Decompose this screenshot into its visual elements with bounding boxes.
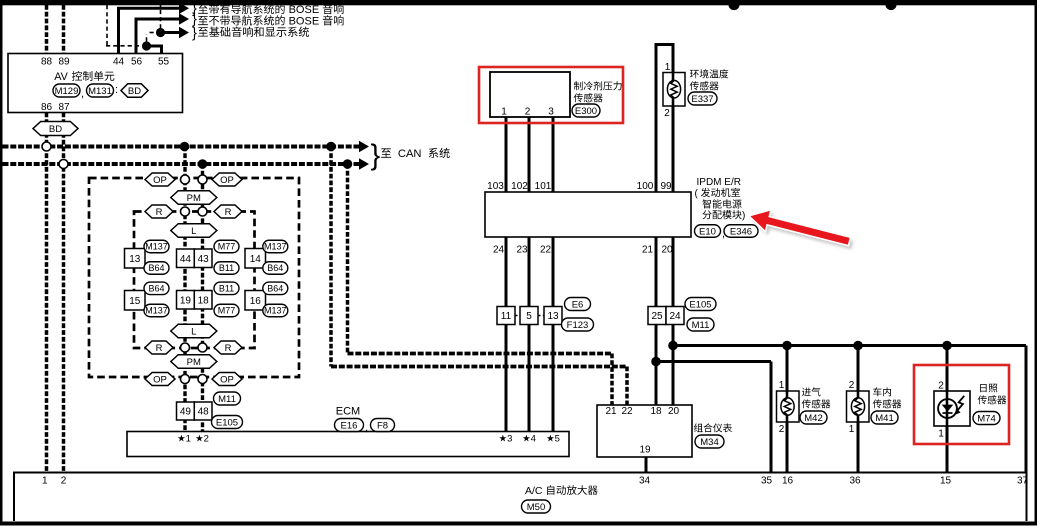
svg-text:88: 88	[41, 57, 53, 68]
svg-text:24: 24	[669, 311, 681, 322]
svg-text:21: 21	[642, 245, 654, 256]
svg-text:R: R	[156, 343, 163, 354]
svg-text:11: 11	[501, 311, 512, 322]
svg-text:M34: M34	[700, 437, 718, 448]
svg-text:89: 89	[58, 57, 70, 68]
svg-text:OP: OP	[153, 374, 167, 385]
svg-text:1: 1	[665, 62, 671, 73]
svg-text:M129: M129	[55, 86, 79, 97]
svg-text:M137: M137	[264, 242, 287, 252]
svg-text:E6: E6	[572, 299, 584, 310]
svg-text:E10: E10	[699, 226, 716, 237]
svg-text::: :	[115, 84, 118, 96]
svg-text:M11: M11	[692, 320, 710, 331]
svg-text:}: }	[371, 140, 381, 172]
svg-text:55: 55	[158, 57, 170, 68]
svg-text:2: 2	[61, 476, 67, 487]
svg-text:E105: E105	[216, 417, 238, 428]
svg-text:86: 86	[41, 102, 53, 113]
svg-text:E105: E105	[689, 299, 711, 310]
svg-text:}: }	[192, 26, 197, 42]
svg-text:22: 22	[621, 406, 633, 417]
svg-text:43: 43	[198, 254, 210, 265]
svg-text:,: ,	[722, 228, 725, 240]
svg-text:OP: OP	[220, 374, 234, 385]
svg-text:M137: M137	[264, 306, 287, 316]
svg-text:★5: ★5	[546, 434, 560, 445]
svg-text:M77: M77	[218, 242, 236, 252]
svg-text:99: 99	[660, 181, 672, 192]
svg-text:2: 2	[849, 380, 855, 391]
svg-text:F8: F8	[377, 420, 388, 431]
svg-text:M77: M77	[218, 306, 236, 316]
svg-text:56: 56	[131, 57, 143, 68]
svg-text:18: 18	[650, 406, 662, 417]
svg-text:★4: ★4	[522, 434, 536, 445]
svg-text:1: 1	[779, 380, 785, 391]
svg-text:48: 48	[198, 407, 210, 418]
svg-text:,: ,	[81, 88, 84, 100]
svg-text:F123: F123	[567, 320, 589, 331]
svg-text:★1: ★1	[177, 434, 191, 445]
svg-text:B11: B11	[219, 284, 234, 294]
svg-text:19: 19	[639, 445, 651, 456]
svg-text:20: 20	[661, 245, 673, 256]
svg-text:13: 13	[129, 254, 141, 265]
svg-text:15: 15	[940, 476, 952, 487]
svg-text:44: 44	[180, 254, 192, 265]
svg-text:BD: BD	[49, 124, 62, 135]
svg-text:37: 37	[1017, 476, 1029, 487]
svg-text:L: L	[191, 226, 196, 237]
svg-text:IPDM E/R: IPDM E/R	[697, 177, 741, 188]
svg-text:20: 20	[668, 406, 680, 417]
svg-text:36: 36	[849, 476, 861, 487]
svg-text:2: 2	[664, 108, 670, 119]
svg-text:PM: PM	[187, 193, 201, 204]
svg-text:M131: M131	[88, 86, 112, 97]
svg-text:3: 3	[548, 107, 554, 118]
svg-text:BOSE: BOSE	[289, 16, 320, 28]
svg-text:19: 19	[180, 295, 192, 306]
svg-text:ECM: ECM	[336, 406, 360, 418]
svg-text:M11: M11	[218, 394, 236, 405]
svg-text:35: 35	[761, 476, 773, 487]
svg-text:1: 1	[849, 424, 855, 435]
svg-text:23: 23	[516, 245, 528, 256]
svg-text:BD: BD	[128, 86, 141, 97]
svg-text:,: ,	[365, 422, 368, 434]
svg-text:25: 25	[651, 311, 663, 322]
svg-text:PM: PM	[187, 357, 201, 368]
svg-text:L: L	[191, 326, 196, 337]
svg-text:100: 100	[637, 181, 654, 192]
svg-text:E346: E346	[730, 226, 752, 237]
svg-text:14: 14	[250, 254, 262, 265]
svg-text:102: 102	[511, 181, 528, 192]
svg-text:BOSE: BOSE	[289, 4, 320, 16]
svg-text:CAN: CAN	[398, 148, 422, 160]
svg-text:M41: M41	[875, 413, 893, 424]
svg-text:13: 13	[547, 311, 559, 322]
svg-text:B64: B64	[148, 263, 164, 273]
svg-text:34: 34	[639, 476, 651, 487]
svg-text:5: 5	[526, 311, 532, 322]
svg-text:21: 21	[605, 406, 617, 417]
svg-text:1: 1	[938, 429, 944, 440]
svg-text:E300: E300	[575, 106, 597, 117]
svg-text:E16: E16	[341, 420, 358, 431]
svg-text:16: 16	[250, 296, 262, 307]
svg-text:22: 22	[540, 245, 552, 256]
svg-text:B64: B64	[148, 284, 164, 294]
svg-text:R: R	[156, 207, 163, 218]
svg-text:B64: B64	[267, 284, 283, 294]
svg-text:49: 49	[180, 407, 192, 418]
svg-text:M74: M74	[977, 413, 995, 424]
svg-text:OP: OP	[220, 175, 234, 186]
svg-text:2: 2	[938, 381, 944, 392]
svg-text:87: 87	[58, 102, 70, 113]
svg-text:M137: M137	[145, 306, 168, 316]
svg-text:OP: OP	[153, 175, 167, 186]
svg-text:1: 1	[42, 476, 48, 487]
svg-text:44: 44	[113, 57, 125, 68]
svg-text:AV: AV	[54, 71, 68, 83]
svg-text:15: 15	[129, 296, 141, 307]
svg-text:A/C: A/C	[525, 485, 543, 497]
svg-text:101: 101	[535, 181, 552, 192]
svg-text:1: 1	[501, 107, 507, 118]
svg-text:): )	[742, 210, 745, 221]
svg-text:★3: ★3	[499, 434, 513, 445]
svg-text:R: R	[225, 207, 232, 218]
svg-text:16: 16	[782, 476, 794, 487]
svg-text:24: 24	[493, 245, 505, 256]
svg-text:E337: E337	[691, 94, 713, 105]
svg-text:M42: M42	[804, 413, 822, 424]
svg-text:103: 103	[487, 181, 504, 192]
svg-text:B11: B11	[219, 263, 234, 273]
svg-text:M137: M137	[145, 242, 168, 252]
svg-text:18: 18	[198, 295, 210, 306]
svg-text:B64: B64	[267, 263, 283, 273]
svg-text:2: 2	[779, 424, 785, 435]
svg-text:2: 2	[525, 107, 531, 118]
svg-text:M50: M50	[527, 502, 545, 513]
svg-text:★2: ★2	[195, 434, 209, 445]
svg-text:R: R	[225, 343, 232, 354]
